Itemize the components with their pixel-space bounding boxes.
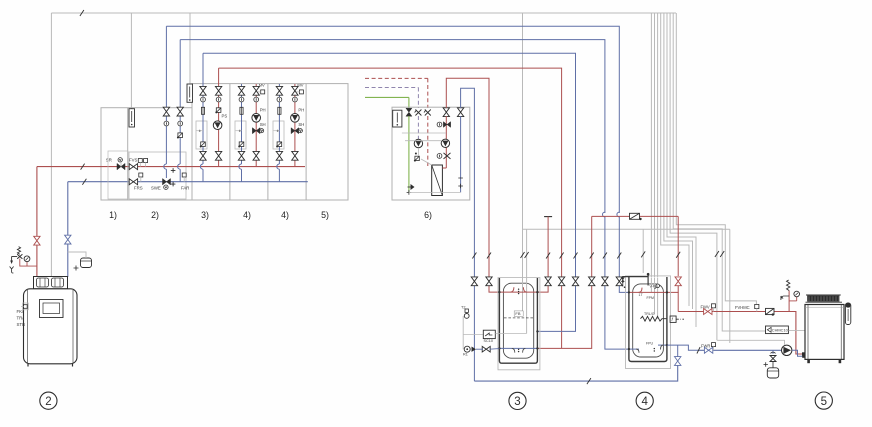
wire control bus top xyxy=(51,12,676,14)
pipe pump to heat pump xyxy=(792,350,804,356)
stem FWR sensor xyxy=(713,347,715,351)
junction hx bottom xyxy=(458,178,463,188)
junction plus xyxy=(74,266,79,271)
wire CHMC to heat pump xyxy=(788,329,805,331)
safety spring boiler xyxy=(17,247,20,255)
junction plus hp xyxy=(764,362,768,366)
svg-text:4): 4) xyxy=(243,210,251,220)
pipe to expansion vessel xyxy=(68,252,86,258)
pipe 4b left upper xyxy=(278,84,280,151)
pipe section3 left top xyxy=(202,53,204,88)
4b over supply xyxy=(277,164,280,169)
pipe top run 3 tank3 return xyxy=(203,53,576,213)
stem MV 4b xyxy=(295,91,300,93)
section3 to return xyxy=(202,169,204,182)
pipe 4a left upper xyxy=(241,84,243,151)
wire control drop tank4 vent xyxy=(642,229,644,273)
sensor FVHMC xyxy=(755,304,759,308)
wire sensor coil inside tank4 xyxy=(657,278,659,320)
actuator SWE xyxy=(164,185,168,189)
sensor sub-box section 3 xyxy=(196,121,207,149)
expansion vessel boiler xyxy=(81,258,92,268)
pump R1 xyxy=(464,346,470,352)
boiler door xyxy=(40,300,64,318)
label circle 4 tank xyxy=(636,392,653,409)
expansion vessel hp xyxy=(772,362,774,368)
sensor sub-box section 4b xyxy=(273,121,284,149)
break xyxy=(521,252,525,258)
valve FWR xyxy=(704,347,712,353)
wire control drop FWR area xyxy=(729,229,731,343)
tank4 inlet curl xyxy=(639,288,642,293)
pipe dashed return to module 6 xyxy=(365,87,418,89)
thermometer s3 right xyxy=(216,97,221,102)
pipe FWR return from heat pump xyxy=(697,349,781,351)
tank4 outlet curl left xyxy=(636,349,639,353)
break riser x591 xyxy=(590,253,594,259)
actuator SH 4b xyxy=(298,129,302,133)
svg-text:SH: SH xyxy=(298,122,304,127)
module box 6 xyxy=(392,107,470,200)
label circle 2 boiler xyxy=(40,392,57,409)
tank3 level line xyxy=(504,317,533,319)
wire SC10 into tank xyxy=(495,333,526,335)
svg-text:FRS: FRS xyxy=(134,186,143,191)
tank4 dots bottom center xyxy=(654,348,655,349)
break supply main xyxy=(81,164,85,170)
valve 4b right bottom xyxy=(292,151,298,160)
heat pump fan coil block xyxy=(807,296,839,302)
pipe 4a right xyxy=(255,84,257,164)
pump PH 4a xyxy=(252,114,261,123)
valve s3 right xyxy=(215,86,221,95)
valve 4a left bottom xyxy=(238,151,244,160)
pipe section3 left mid xyxy=(202,94,204,151)
pipe 4b right xyxy=(294,84,296,164)
svg-text:4): 4) xyxy=(281,210,289,220)
pipe red crossing tank4 top xyxy=(629,291,667,293)
controller plate module 3 xyxy=(187,84,193,102)
tank3 outlet curl left xyxy=(512,348,515,352)
wire box6 d xyxy=(421,159,432,165)
valve 4a right xyxy=(253,86,259,95)
svg-text:1): 1) xyxy=(109,210,117,220)
tank 3 shell xyxy=(499,278,537,363)
crossover a xyxy=(603,212,605,217)
thermometer riser B xyxy=(178,121,183,126)
svg-text:SWE: SWE xyxy=(151,186,161,191)
valve riser x604 xyxy=(602,277,608,286)
motor valve s3 xyxy=(201,142,206,147)
valve s3 left bottom xyxy=(200,151,206,160)
thermometer box6 mid xyxy=(437,154,442,159)
pipe supply drop tank3 left xyxy=(488,213,490,286)
wire control drop tank4 TRL xyxy=(654,13,656,314)
pipe into tank3 top left xyxy=(489,286,499,292)
wire box6 b xyxy=(405,140,441,142)
pipe drop tank4 right upper xyxy=(677,216,679,276)
sensor pocket boiler xyxy=(24,305,28,309)
break riser x474 xyxy=(472,253,476,259)
pipe hx supply lower xyxy=(445,147,447,168)
controller plate module 2 xyxy=(129,109,135,127)
valve riser x575 xyxy=(572,277,578,286)
boiler feet xyxy=(27,364,29,367)
mixing valve SH 4b xyxy=(291,128,299,134)
valve motor MV 4b xyxy=(299,90,303,94)
svg-text:5: 5 xyxy=(821,396,827,408)
heating coil tank4 xyxy=(641,316,667,321)
sensor tap s3 xyxy=(199,130,201,132)
4b to supply xyxy=(294,164,296,167)
svg-text:R1: R1 xyxy=(463,353,468,357)
stem FWV sensor xyxy=(713,308,715,312)
boiler burner box xyxy=(34,277,68,289)
CHMC controller box xyxy=(766,326,789,334)
pipe supply down to boiler xyxy=(36,167,38,277)
svg-text:6): 6) xyxy=(424,210,432,220)
valve 4b right xyxy=(292,86,298,95)
wire control to FVHMC xyxy=(676,13,756,305)
valve riser x619 xyxy=(616,277,622,286)
svg-text:2: 2 xyxy=(45,396,51,408)
valve riser x548 xyxy=(545,277,551,286)
wire sensor TRL inside tank4 xyxy=(654,278,656,315)
valve FRS xyxy=(129,179,137,185)
pipe section3 left low xyxy=(202,160,204,164)
tank3 wall junction dots xyxy=(498,347,500,349)
break return main xyxy=(82,179,86,185)
divider 4/5 xyxy=(305,84,307,200)
4a over supply xyxy=(239,164,242,169)
riser B over supply main xyxy=(178,164,181,169)
wire control drop to boiler xyxy=(50,13,52,277)
wire control to CHMC xyxy=(673,13,765,331)
pipe 4a left lower xyxy=(241,160,243,164)
pipe dashed return drop xyxy=(417,88,419,109)
heat pump sight tube xyxy=(845,303,850,325)
pipe top run 4 tank3 supply xyxy=(219,68,562,213)
pipe solar internal xyxy=(408,116,410,192)
svg-text:5): 5) xyxy=(321,210,329,220)
module box sections 1-2 xyxy=(101,108,192,200)
wire control to FWR area xyxy=(670,13,717,340)
pipe supply drop tank3 lower xyxy=(561,213,563,286)
pipe stub drop tank3 right xyxy=(547,217,549,286)
wire to pump xyxy=(717,340,785,345)
controller plate module 6 xyxy=(393,110,402,127)
valve bottom main xyxy=(675,357,681,366)
stem MV 4a xyxy=(256,91,261,93)
tank3 dots bottom xyxy=(518,349,519,350)
thermometer T2 xyxy=(465,309,468,312)
pipe R1 to tank3 xyxy=(490,348,500,351)
valve solar inlet xyxy=(406,108,412,116)
pipe box6 return from tank3 xyxy=(461,88,475,213)
actuator SR xyxy=(118,158,122,162)
sensor FVS 2 xyxy=(144,159,148,163)
pipe drop to tank3 bottom line xyxy=(561,286,563,348)
valve riser x561 xyxy=(558,277,564,286)
wire box6 c xyxy=(417,148,419,156)
valve 4a left xyxy=(238,86,244,95)
pipe into tank3 top right xyxy=(537,286,548,292)
safety valve boiler xyxy=(17,254,22,258)
wire control to CHMC left xyxy=(667,13,696,327)
pipe boiler return main xyxy=(68,181,308,183)
sub-box SR xyxy=(108,151,128,199)
wire control drop to module 2 xyxy=(130,13,132,109)
pump heat pump xyxy=(782,345,792,355)
svg-text:3: 3 xyxy=(514,396,520,408)
valve motor MV 4a xyxy=(261,90,265,94)
pipe into tank3 mid right xyxy=(537,286,575,331)
pipe drop tank4 a xyxy=(604,216,606,286)
pipe safety stem hp xyxy=(788,291,790,312)
valve dashed return inlet xyxy=(415,110,422,116)
pipe solar drop xyxy=(408,97,410,108)
pipe dashed internal right xyxy=(427,116,429,166)
break riser x561 xyxy=(560,253,564,259)
break bottom main xyxy=(587,378,591,384)
pipe tank3 bottom to header xyxy=(537,216,591,348)
pipe riser B down xyxy=(179,40,181,164)
valve FVS xyxy=(129,164,137,170)
wire dash-dot from f box xyxy=(676,318,684,320)
valve riser x489 xyxy=(486,277,492,286)
pipe drop tank4 b xyxy=(618,216,620,286)
stem expansion hp xyxy=(772,350,774,354)
valve box6 mid xyxy=(444,153,451,159)
break xyxy=(720,251,724,257)
tank4 wall junction dots bottom xyxy=(628,348,630,350)
pipe crossing tank3 bottom xyxy=(499,347,537,349)
valve boiler return xyxy=(65,235,71,244)
svg-text:2): 2) xyxy=(151,210,159,220)
section3 to supply xyxy=(218,164,220,167)
label FB xyxy=(514,311,523,316)
valve dashed supply inlet xyxy=(424,110,431,116)
stem SR xyxy=(120,162,122,167)
tank 3 liner xyxy=(503,283,533,358)
check valve R1 xyxy=(472,347,477,352)
motor valve 4b xyxy=(277,142,282,147)
svg-text:SC10: SC10 xyxy=(484,339,494,343)
module box sections 3-5 xyxy=(192,84,348,200)
svg-text:FPM: FPM xyxy=(647,296,654,300)
tank4 blue outlet right xyxy=(667,345,697,350)
valve s3 left xyxy=(200,86,206,95)
pump PS xyxy=(213,121,222,130)
pipe T2 to R1 xyxy=(462,316,464,349)
svg-text:FAR: FAR xyxy=(181,186,189,191)
sensor FVS 1 xyxy=(138,159,142,163)
thermometer box6 top xyxy=(437,122,442,127)
heat pump body xyxy=(805,305,844,360)
break xyxy=(525,252,529,258)
break tank4 right xyxy=(676,252,680,258)
4a to supply xyxy=(255,164,257,167)
three-way valve box6 xyxy=(443,122,450,128)
valve riser A xyxy=(163,107,169,116)
svg-text:4: 4 xyxy=(641,396,648,408)
valve 4b left xyxy=(276,86,282,95)
sensor circle FPM xyxy=(656,284,660,288)
pipe box6 supply to tank3 xyxy=(446,78,489,213)
pipe R1 a xyxy=(476,348,483,350)
valve tank4 right xyxy=(675,277,681,286)
thermometer 4a right xyxy=(254,97,259,102)
wire control drop tank3 inner xyxy=(526,229,528,333)
svg-text:SR: SR xyxy=(106,158,112,163)
check valve header xyxy=(630,213,640,219)
riser B to return xyxy=(179,169,181,182)
SC10 box xyxy=(483,330,495,338)
4b to return xyxy=(278,169,280,182)
valve riser B xyxy=(177,107,183,116)
wire sensor FB inside tank3 xyxy=(522,278,524,313)
tank3 inlet curl right xyxy=(523,287,526,292)
stem xyxy=(183,177,185,182)
valve riser x591 xyxy=(589,277,595,286)
pipe top run 1 to tank4 xyxy=(166,26,619,213)
wire control to FVHMC left xyxy=(661,13,689,306)
heat pump feet xyxy=(807,359,810,363)
svg-text:TR/: TR/ xyxy=(17,316,25,321)
break riser x619 xyxy=(617,253,621,259)
valve R1 xyxy=(482,346,490,352)
section3 over supply xyxy=(200,164,203,169)
pipe safety branch boiler xyxy=(20,259,37,267)
svg-text:V-FO: V-FO xyxy=(650,285,658,289)
pipe FWV supply to heat pump xyxy=(678,312,803,355)
fill pipe tank4 top xyxy=(623,277,648,283)
motor valve 4a xyxy=(239,142,244,147)
wire FK box xyxy=(23,303,29,310)
pipe header tank3-tank4 xyxy=(592,215,679,217)
break riser x575 xyxy=(574,253,578,259)
break riser x489 xyxy=(487,253,491,259)
svg-text:3): 3) xyxy=(201,210,209,220)
riser A over supply main xyxy=(164,164,167,169)
pipe return down to boiler xyxy=(67,182,69,277)
wire to SC10 xyxy=(463,334,483,336)
pressure gauge hp xyxy=(789,300,797,302)
drain funnel boiler xyxy=(10,267,14,274)
break riser x604 xyxy=(603,253,607,259)
pump valve SWE xyxy=(163,179,171,185)
wire box6 a xyxy=(402,132,446,134)
pipe boiler supply main xyxy=(37,166,305,168)
drain valve tank4 top xyxy=(621,278,625,282)
tank4 wall junction dots top xyxy=(628,291,630,293)
thermometer 4b right xyxy=(293,97,298,102)
valve hx supply xyxy=(443,108,449,117)
sensor FWR xyxy=(712,343,716,347)
tank4 outlet curl right xyxy=(661,345,664,349)
svg-text:FVS: FVS xyxy=(129,158,137,163)
motor valve box6 xyxy=(415,156,419,160)
label circle 5 heat pump xyxy=(815,392,832,409)
pipe 4b left lower xyxy=(278,160,280,164)
thermometer riser A xyxy=(164,121,169,126)
pipe solar to module 6 xyxy=(365,96,409,98)
break riser x548 xyxy=(546,253,550,259)
svg-text:PS: PS xyxy=(222,114,228,119)
vent arrow hp xyxy=(781,296,789,300)
valve 4b left bottom xyxy=(276,151,282,160)
tank3 outer casing xyxy=(498,278,540,370)
pipe hx return internal xyxy=(460,116,462,192)
tank3 outlet curl right xyxy=(523,348,526,352)
wire to FK sensor xyxy=(21,306,24,308)
wire control drop tank4 1T xyxy=(650,13,652,292)
sensor FRS xyxy=(139,173,143,177)
pipe dashed supply drop xyxy=(427,78,429,108)
pump PH 4b xyxy=(291,114,300,123)
pipe section3 right xyxy=(218,68,220,164)
sub-box section 2 xyxy=(129,152,186,199)
heat exchanger xyxy=(432,165,443,196)
valve 4a right bottom xyxy=(253,151,259,160)
divider 3/4 xyxy=(229,84,231,200)
pipe into tank4 top left xyxy=(619,286,629,292)
svg-text:SH: SH xyxy=(260,122,266,127)
pipe bottom main to FWR xyxy=(677,345,679,357)
4a to return xyxy=(241,169,243,182)
tank3 inlet curl left xyxy=(511,287,514,292)
sensor tap 4a xyxy=(239,130,241,132)
pipe dashed internal left xyxy=(417,116,419,139)
valve hx return xyxy=(457,108,463,117)
pipe red crossing tank3 top xyxy=(499,291,537,293)
wire sensor 1T inside tank4 xyxy=(650,278,652,293)
drain valve box6 xyxy=(411,184,415,190)
break FWR xyxy=(697,347,700,353)
wire control horizontal to heat pump xyxy=(523,228,730,230)
wire sensor inside tank3 xyxy=(526,278,528,334)
valve riser x474 xyxy=(471,277,477,286)
heat pump plinth line xyxy=(806,301,843,303)
check valve s3 xyxy=(216,108,221,113)
valve s3 bottom xyxy=(215,151,221,160)
pipe dashed supply to module 6 xyxy=(365,77,428,79)
thermometer 4a left xyxy=(239,97,244,102)
sensor dot box6 xyxy=(415,153,417,155)
riser A to return xyxy=(165,169,167,178)
divider 4/4 xyxy=(267,84,269,200)
pump box6 left xyxy=(414,139,422,147)
svg-text:CHMC10: CHMC10 xyxy=(772,328,789,333)
pressure reducing valve hp xyxy=(770,356,776,362)
pipe return riser tank3 left xyxy=(473,213,475,381)
hp inlet connector blue xyxy=(802,355,805,358)
valve FWV xyxy=(704,309,712,315)
coil control box f xyxy=(670,316,676,322)
balancing valve 4b xyxy=(278,107,281,114)
pipe hx top connect xyxy=(442,167,446,169)
pipe into tank4 bottom left xyxy=(605,286,629,349)
crossover b xyxy=(617,212,619,217)
svg-text:FPU: FPU xyxy=(646,341,653,345)
sensor tap 4b xyxy=(277,130,279,132)
divider section 1/2 xyxy=(127,108,129,200)
tank3 dots top xyxy=(518,289,519,290)
pipe blue crossing tank4 bottom right xyxy=(658,344,667,346)
pipe into tank4 right xyxy=(667,286,678,293)
actuator SH 4a xyxy=(260,129,264,133)
three-way valve SR xyxy=(117,163,125,169)
